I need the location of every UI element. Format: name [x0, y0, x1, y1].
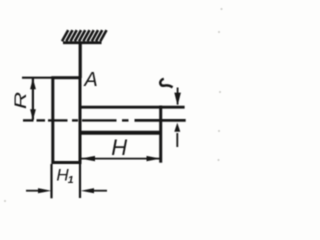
- dimension R extension line: [22, 77, 53, 79]
- svg-text:1: 1: [68, 174, 74, 186]
- dimension H arrowhead right: [147, 156, 161, 161]
- H1 extension line right: [79, 164, 81, 198]
- svg-text:R: R: [11, 92, 29, 109]
- label r: [160, 79, 172, 88]
- dimension r arrowhead down: [174, 93, 181, 106]
- fixed support hatching: [62, 30, 107, 41]
- paper specks: [4, 8, 223, 202]
- centerline (dash-dot axis): [23, 119, 186, 121]
- dimension r upper line: [177, 88, 179, 105]
- dimension r arrowhead up: [174, 123, 180, 132]
- shaft bottom edge wire: [80, 131, 162, 135]
- dimension H1 arrowhead right-pointing: [38, 188, 51, 193]
- H1 extension line left: [50, 164, 52, 198]
- dimension R arrowhead down: [30, 109, 36, 120]
- dimension H arrowhead left: [81, 156, 95, 161]
- flange rectangle: [53, 78, 80, 163]
- dimension H1 arrowhead left-pointing: [81, 188, 94, 193]
- dimension R line: [32, 79, 34, 120]
- dimension r lower line: [176, 133, 178, 147]
- dimension H1 right line: [93, 190, 107, 192]
- dimension H1 left line: [26, 190, 40, 192]
- svg-text:A: A: [83, 69, 97, 91]
- dimension R arrowhead up: [30, 78, 36, 89]
- svg-text:H: H: [111, 135, 127, 160]
- dimension H line: [82, 158, 161, 160]
- shaft end face / H extension line: [159, 106, 162, 163]
- rod wire from support to flange: [79, 43, 82, 78]
- fixed support line: [63, 41, 102, 44]
- shaft top edge wire: [80, 106, 185, 109]
